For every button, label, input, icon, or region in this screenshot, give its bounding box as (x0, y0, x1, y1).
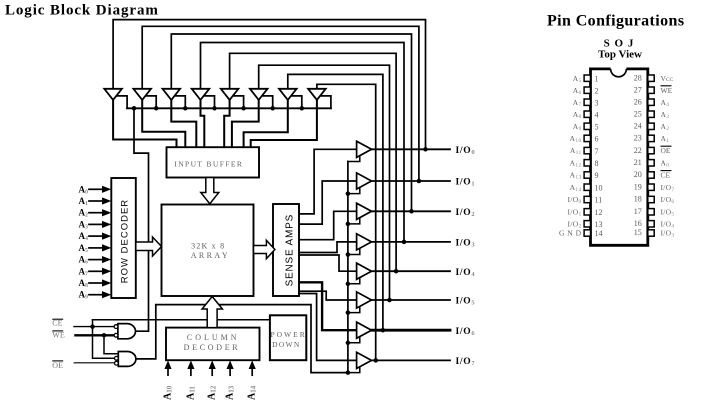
svg-text:27: 27 (634, 85, 642, 94)
svg-text:Logic Block Diagram: Logic Block Diagram (5, 3, 159, 19)
svg-text:10: 10 (595, 183, 603, 192)
svg-text:6: 6 (595, 135, 599, 144)
svg-text:WE: WE (661, 86, 673, 95)
svg-text:20: 20 (634, 170, 642, 179)
svg-text:8: 8 (595, 159, 599, 168)
svg-text:14: 14 (595, 229, 603, 238)
svg-text:2: 2 (595, 86, 599, 95)
svg-text:13: 13 (595, 220, 603, 229)
svg-text:Top View: Top View (598, 49, 642, 61)
svg-text:26: 26 (634, 97, 642, 106)
svg-text:Pin Configurations: Pin Configurations (547, 13, 684, 30)
svg-text:ARRAY: ARRAY (191, 251, 230, 260)
svg-text:23: 23 (634, 134, 642, 143)
svg-text:15: 15 (634, 228, 642, 237)
svg-text:OE: OE (661, 146, 671, 155)
svg-text:22: 22 (634, 146, 642, 155)
svg-text:25: 25 (634, 109, 642, 118)
svg-text:3: 3 (595, 98, 599, 107)
svg-text:DECODER: DECODER (184, 343, 241, 352)
svg-text:28: 28 (634, 73, 642, 82)
svg-text:18: 18 (634, 195, 642, 204)
svg-text:4: 4 (595, 110, 599, 119)
svg-text:POWER: POWER (270, 330, 306, 339)
svg-text:32K x 8: 32K x 8 (191, 242, 225, 251)
svg-text:11: 11 (595, 196, 603, 205)
svg-text:ROW DECODER: ROW DECODER (120, 199, 131, 283)
svg-text:DOWN: DOWN (272, 340, 301, 349)
svg-text:CE: CE (52, 319, 62, 328)
svg-text:9: 9 (595, 171, 599, 180)
svg-text:INPUT BUFFER: INPUT BUFFER (174, 159, 243, 168)
svg-text:5: 5 (595, 123, 599, 132)
svg-text:12: 12 (595, 208, 603, 217)
svg-text:24: 24 (634, 122, 642, 131)
svg-text:17: 17 (634, 207, 642, 216)
svg-text:16: 16 (634, 219, 642, 228)
svg-text:WE: WE (52, 331, 65, 340)
svg-text:SENSE AMPS: SENSE AMPS (284, 214, 295, 286)
svg-text:1: 1 (595, 74, 599, 83)
svg-text:OE: OE (52, 361, 63, 370)
svg-text:CE: CE (661, 171, 671, 180)
svg-text:COLUMN: COLUMN (187, 333, 240, 342)
svg-text:21: 21 (634, 158, 642, 167)
svg-text:G N D: G N D (559, 229, 582, 238)
svg-text:19: 19 (634, 182, 642, 191)
svg-text:7: 7 (595, 147, 599, 156)
